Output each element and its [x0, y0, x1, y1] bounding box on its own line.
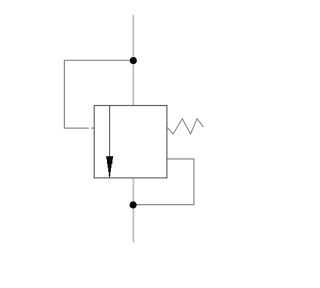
main supply line (vertical, top segment) [132, 15, 134, 106]
main supply line (vertical, bottom segment) [132, 178, 134, 242]
flow path stem inside valve [109, 106, 111, 157]
flow direction arrowhead (solid, pointing down) [106, 156, 114, 178]
junction dot (lower node) [130, 201, 137, 208]
pilot line dash at valve left port [91, 127, 94, 129]
pilot feedback line (left loop) [64, 60, 133, 128]
valve body (square envelope) [94, 106, 167, 178]
junction dot (upper node) [130, 57, 137, 64]
drain/feedback line (right loop) [133, 159, 194, 205]
spring (zigzag, right side) [167, 119, 204, 134]
